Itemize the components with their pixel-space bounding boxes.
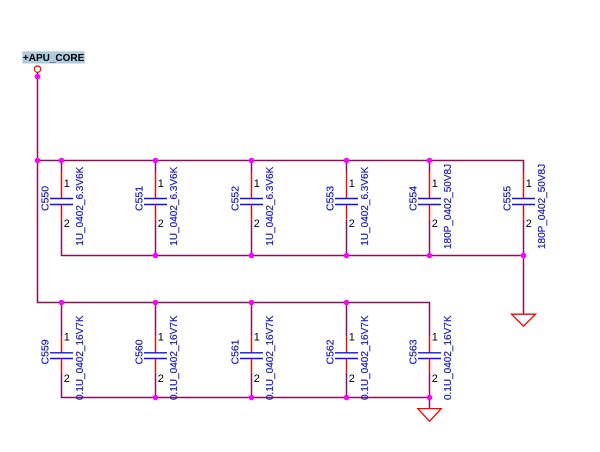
net label +APU_CORE [22, 51, 84, 64]
junction on row1 top rail at x=346.5 [344, 158, 350, 164]
svg-text:2: 2 [432, 218, 438, 230]
C563 pin 1 [429, 336, 431, 353]
svg-text:1: 1 [432, 332, 438, 344]
C550 pin 1 lead wire stub [61, 161, 63, 172]
svg-text:1U_0402_6.3V6K: 1U_0402_6.3V6K [75, 166, 86, 245]
svg-text:180P_0402_50V8J: 180P_0402_50V8J [537, 164, 548, 249]
C555 pin 1 [523, 172, 525, 199]
capacitor C560 [134, 303, 180, 401]
C554 pin 1 [429, 172, 431, 199]
wire: row 2 bottom rail [61, 397, 430, 399]
C551 top plate [144, 198, 167, 200]
svg-text:1: 1 [254, 178, 260, 190]
junction on row2 top rail at x=346.5 [344, 300, 350, 306]
junction on row1 top rail at x=37.5 [35, 158, 41, 164]
C562 pin 1 lead wire stub [346, 303, 348, 337]
svg-text:C552: C552 [230, 186, 242, 211]
junction on row2 bottom rail at x=251.5 [249, 395, 255, 401]
C550 pin 2 lead wire stub [61, 220, 63, 256]
capacitor C561 [230, 303, 276, 401]
C561 pin 1 lead wire stub [251, 303, 253, 337]
C554 pin 2 lead wire stub [429, 220, 431, 256]
C559 top plate [50, 352, 73, 354]
C554 pin 2 [429, 205, 431, 220]
svg-text:C562: C562 [325, 339, 337, 364]
svg-text:1: 1 [349, 178, 355, 190]
C552 pin 2 lead wire stub [251, 220, 253, 256]
svg-text:1: 1 [349, 332, 355, 344]
svg-text:1: 1 [64, 332, 70, 344]
svg-text:0.1U_0402_16V7K: 0.1U_0402_16V7K [443, 315, 454, 400]
capacitor C550 [40, 161, 86, 256]
C555 top plate [512, 198, 535, 200]
svg-text:C559: C559 [40, 339, 52, 364]
capacitor C555 [502, 161, 548, 256]
svg-text:1U_0402_6.3V6K: 1U_0402_6.3V6K [169, 166, 180, 245]
C553 pin 2 [346, 205, 348, 220]
junction on row1 top rail at x=155.5 [153, 158, 159, 164]
svg-text:1: 1 [158, 332, 164, 344]
junction on row1 bottom rail at x=346.5 [344, 253, 350, 259]
wire: main vertical from +APU_CORE down to row 2 top rail [37, 72, 39, 302]
C554 top plate [418, 198, 441, 200]
svg-text:0.1U_0402_16V7K: 0.1U_0402_16V7K [169, 315, 180, 400]
capacitor C551 [134, 161, 180, 256]
C555 pin 2 lead wire stub [523, 220, 525, 256]
svg-text:2: 2 [432, 373, 438, 385]
C562 bottom plate [335, 358, 358, 360]
svg-text:0.1U_0402_16V7K: 0.1U_0402_16V7K [360, 315, 371, 400]
C562 pin 2 [346, 359, 348, 373]
svg-text:C553: C553 [325, 186, 337, 211]
junction on row2 bottom rail at x=155.5 [153, 395, 159, 401]
C559 pin 2 [61, 359, 63, 373]
ground symbol (row 2 right) [418, 409, 441, 422]
wire: stub to row 2 ground [429, 398, 431, 409]
C553 pin 2 lead wire stub [346, 220, 348, 256]
C551 bottom plate [144, 204, 167, 206]
C560 bottom plate [144, 358, 167, 360]
svg-text:C555: C555 [502, 186, 514, 211]
C562 pin 2 lead wire stub [346, 373, 348, 398]
svg-text:1: 1 [64, 178, 70, 190]
junction on row2 top rail at x=251.5 [249, 300, 255, 306]
capacitor C562 [325, 303, 371, 401]
wire: row 1 bottom rail [61, 255, 524, 257]
C561 bottom plate [240, 358, 263, 360]
C560 pin 2 [155, 359, 157, 373]
C552 pin 1 [251, 172, 253, 199]
C551 pin 1 [155, 172, 157, 199]
port circle for +APU_CORE [34, 66, 40, 72]
C559 pin 1 lead wire stub [61, 303, 63, 337]
C553 pin 1 lead wire stub [346, 161, 348, 172]
C561 pin 2 lead wire stub [251, 373, 253, 398]
C563 pin 2 [429, 359, 431, 373]
C560 pin 1 [155, 336, 157, 353]
C553 top plate [335, 198, 358, 200]
wire: row 1 top rail [37, 160, 524, 162]
C553 bottom plate [335, 204, 358, 206]
C551 pin 1 lead wire stub [155, 161, 157, 172]
C563 top plate [418, 352, 441, 354]
capacitor C554 [408, 161, 454, 256]
C551 pin 2 lead wire stub [155, 220, 157, 256]
C550 pin 1 [61, 172, 63, 199]
capacitor C563 [408, 303, 454, 401]
svg-text:C554: C554 [408, 186, 420, 211]
svg-text:2: 2 [254, 218, 260, 230]
svg-text:2: 2 [158, 218, 164, 230]
ground symbol (row 1 right) [512, 314, 536, 326]
C562 pin 1 [346, 336, 348, 353]
svg-text:1U_0402_6.3V6K: 1U_0402_6.3V6K [360, 166, 371, 245]
junction on row1 top rail at x=61.5 [59, 158, 65, 164]
svg-text:1U_0402_6.3V6K: 1U_0402_6.3V6K [265, 166, 276, 245]
svg-text:2: 2 [64, 218, 70, 230]
junction on row1 bottom rail at x=155.5 [153, 253, 159, 259]
C561 top plate [240, 352, 263, 354]
C552 top plate [240, 198, 263, 200]
svg-text:1: 1 [432, 178, 438, 190]
svg-text:0.1U_0402_16V7K: 0.1U_0402_16V7K [265, 315, 276, 400]
junction on row2 top rail at x=155.5 [153, 300, 159, 306]
svg-text:+APU_CORE: +APU_CORE [23, 53, 85, 64]
C559 pin 2 lead wire stub [61, 373, 63, 398]
svg-text:2: 2 [64, 373, 70, 385]
C555 pin 1 lead wire stub [523, 161, 525, 172]
C561 pin 1 [251, 336, 253, 353]
junction on row1 bottom rail at x=429.5 [427, 253, 433, 259]
C559 bottom plate [50, 358, 73, 360]
C560 pin 2 lead wire stub [155, 373, 157, 398]
C550 bottom plate [50, 204, 73, 206]
svg-text:2: 2 [158, 373, 164, 385]
C554 bottom plate [418, 204, 441, 206]
svg-text:2: 2 [254, 373, 260, 385]
C559 pin 1 [61, 336, 63, 353]
wire: row 2 top rail [37, 302, 430, 304]
junction on row2 top rail at x=61.5 [59, 300, 65, 306]
C550 top plate [50, 198, 73, 200]
C563 pin 2 lead wire stub [429, 373, 431, 398]
C553 pin 1 [346, 172, 348, 199]
capacitor C552 [230, 161, 276, 256]
C551 pin 2 [155, 205, 157, 220]
junction on row2 bottom rail at x=429.5 [427, 395, 433, 401]
svg-text:1: 1 [526, 178, 532, 190]
svg-text:0.1U_0402_16V7K: 0.1U_0402_16V7K [75, 315, 86, 400]
svg-text:C563: C563 [408, 339, 420, 364]
svg-text:2: 2 [349, 218, 355, 230]
junction at +APU_CORE port [35, 74, 41, 80]
C552 pin 2 [251, 205, 253, 220]
svg-text:1: 1 [158, 178, 164, 190]
capacitor C553 [325, 161, 371, 256]
C554 pin 1 lead wire stub [429, 161, 431, 172]
svg-text:C550: C550 [40, 186, 52, 211]
svg-text:180P_0402_50V8J: 180P_0402_50V8J [443, 164, 454, 249]
C560 top plate [144, 352, 167, 354]
junction on row1 bottom rail at x=523.5 [521, 253, 527, 259]
junction on row1 top rail at x=251.5 [249, 158, 255, 164]
capacitor C559 [40, 303, 86, 401]
C552 bottom plate [240, 204, 263, 206]
C555 bottom plate [512, 204, 535, 206]
svg-text:C551: C551 [134, 186, 146, 211]
svg-text:C560: C560 [134, 339, 146, 364]
C560 pin 1 lead wire stub [155, 303, 157, 337]
svg-text:1: 1 [254, 332, 260, 344]
C555 pin 2 [523, 205, 525, 220]
C552 pin 1 lead wire stub [251, 161, 253, 172]
C563 bottom plate [418, 358, 441, 360]
wire: right vertical drop to ground [523, 256, 525, 315]
junction on row1 top rail at x=429.5 [427, 158, 433, 164]
svg-text:C561: C561 [230, 339, 242, 364]
svg-text:2: 2 [349, 373, 355, 385]
junction on row1 bottom rail at x=251.5 [249, 253, 255, 259]
C561 pin 2 [251, 359, 253, 373]
junction on row2 bottom rail at x=346.5 [344, 395, 350, 401]
C562 top plate [335, 352, 358, 354]
C563 pin 1 lead wire stub [429, 303, 431, 337]
svg-text:2: 2 [526, 218, 532, 230]
C550 pin 2 [61, 205, 63, 220]
